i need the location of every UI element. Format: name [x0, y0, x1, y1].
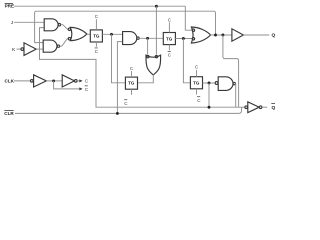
node Cbar label below TG3 — [196, 89, 198, 95]
node junction after TG1 — [110, 33, 113, 36]
or gate OR1 (master input OR, negated inputs) — [68, 27, 87, 40]
wire CLR rail up to NAND3 bottom input — [117, 42, 122, 114]
svg-text:CLK: CLK — [5, 79, 15, 84]
transmission gate TG4 — [125, 77, 137, 89]
svg-text:CLR: CLR — [4, 111, 14, 116]
svg-text:PRE: PRE — [5, 4, 14, 9]
node junction on Qbar net — [208, 106, 211, 109]
wire Qbar feedback to NAND1 lower input (long path to slave) — [40, 28, 245, 108]
svg-text:Q: Q — [272, 105, 276, 111]
svg-text:Q: Q — [272, 32, 276, 38]
svg-text:TG: TG — [93, 34, 100, 39]
wire NAND3 output to TG2 — [139, 37, 163, 39]
node junction on PRE rail — [155, 5, 158, 8]
wire C arrow — [77, 80, 79, 82]
node junction clock — [52, 79, 55, 82]
svg-text:C: C — [85, 79, 89, 84]
wire K inverter to NAND2 bottom input — [36, 48, 43, 50]
node Cbar label (clock phase) — [85, 86, 89, 92]
nand gate NAND4 (slave latch, bubble on input) — [215, 77, 235, 91]
wire PRE rail — [14, 5, 185, 7]
wire feedback rail2 from OR2 output to NAND2 top input — [35, 11, 216, 42]
wire OR2 output to Q buffer — [211, 34, 232, 36]
svg-text:TG: TG — [166, 36, 173, 41]
transmission gate TG3 (slave) — [190, 77, 202, 89]
nand gate NAND1 (J gating) — [44, 19, 60, 31]
nand gate NAND3 (master latch) — [123, 32, 140, 45]
wire junction down to OR3 left input — [147, 38, 149, 54]
wire NAND2 output to OR1 bottom input — [60, 39, 69, 46]
svg-text:C: C — [85, 87, 89, 92]
buffer Q output — [232, 29, 244, 41]
svg-text:C: C — [168, 52, 172, 57]
or gate OR3 (master latch OR, points down, negated inputs) — [146, 55, 161, 75]
node Cbar label below TG1 — [95, 42, 97, 47]
node junction TG3 out — [208, 82, 211, 85]
node junction OR2 out a (to rail2) — [214, 34, 217, 37]
node junction on CLR rail — [116, 112, 119, 115]
wire Qbar output — [262, 106, 267, 108]
wire K input — [17, 48, 21, 50]
svg-text:C: C — [124, 101, 128, 106]
wire PRE junction down to OR3 right input — [155, 6, 157, 54]
wire Cbar branch from junction — [54, 81, 80, 89]
node junction TG2 out — [182, 37, 185, 40]
wire OR3 output down and left to TG4 right side — [138, 75, 154, 83]
inverter K input (bubble on input side) — [21, 43, 36, 56]
svg-text:K: K — [12, 47, 16, 53]
svg-text:J: J — [11, 20, 14, 26]
node Cbar label below TG2 — [168, 45, 170, 51]
svg-text:C: C — [130, 66, 134, 71]
inverter Qbar output (bubbles on both sides) — [245, 102, 262, 113]
wire TG3 output to NAND4 — [203, 82, 216, 84]
inverter CLK second (bubble on output) — [62, 75, 77, 87]
svg-text:C: C — [197, 98, 201, 103]
node CLR input label — [4, 110, 14, 116]
svg-text:C: C — [95, 14, 99, 19]
svg-text:TG: TG — [193, 81, 200, 86]
wire junction down to TG3 input — [183, 39, 190, 83]
svg-text:TG: TG — [128, 81, 135, 86]
svg-text:C: C — [95, 49, 99, 54]
buffer CLK first (bubble on input) — [31, 75, 47, 87]
node Qbar output label — [271, 103, 275, 111]
wire CLK input — [14, 80, 30, 82]
wire TG1 output to NAND3 top input — [102, 33, 122, 35]
node Cbar label below TG4 — [131, 89, 133, 95]
wire Q buffer output — [243, 34, 269, 36]
wire master feedback node down to TG4 left side — [112, 34, 126, 83]
transmission gate TG2 — [163, 33, 175, 45]
wire junction down to Qbar net — [208, 83, 210, 107]
transmission gate TG1 — [90, 30, 102, 42]
node junction NAND3 out — [146, 37, 149, 40]
node PRE input label — [5, 3, 14, 8]
wire NAND1 output to OR1 top input — [61, 25, 69, 30]
wire J input — [14, 21, 44, 23]
svg-text:C: C — [168, 17, 172, 22]
wire TG2 output to OR2 bottom input — [175, 38, 192, 40]
wire OR2 feedback down to slave Qbar net — [223, 35, 239, 107]
nand gate NAND2 (K gating) — [43, 40, 59, 52]
wire PRE to OR2 top input — [185, 6, 192, 30]
wire NAND4 output down to Qbar net — [234, 84, 236, 108]
svg-text:C: C — [195, 64, 199, 69]
wire OR1 output to TG1 — [87, 33, 90, 35]
wire CLK buffer to second inverter — [46, 80, 62, 82]
wire CLR rail with rounded corner up to Qbar inverter input — [15, 107, 242, 113]
node junction OR2 out b (to slave feedback) — [221, 34, 224, 37]
or gate OR2 (slave output OR, negated inputs) — [191, 27, 210, 43]
